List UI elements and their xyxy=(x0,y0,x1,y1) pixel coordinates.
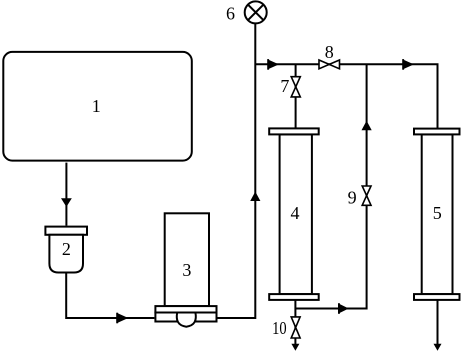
pump 3 dome xyxy=(177,313,196,327)
valve 7 xyxy=(291,77,300,87)
wire branch to valve8 and to column5 top xyxy=(255,64,437,128)
svg-text:4: 4 xyxy=(291,203,300,223)
svg-text:8: 8 xyxy=(325,42,334,62)
arrow right on wire 2-3 xyxy=(116,313,118,324)
pump 3 body xyxy=(165,213,209,306)
wire pump3 base to riser and up to indicator 6 xyxy=(218,24,256,318)
wire tank1 to vessel2 xyxy=(65,163,67,226)
arrow right after branch junction xyxy=(267,59,269,70)
column 4 bottom cap xyxy=(269,294,319,300)
valve 8 xyxy=(319,60,329,69)
column 5 bottom cap xyxy=(414,294,460,300)
wire vessel2 to pump3 base xyxy=(66,273,154,319)
pump 3 base lower row xyxy=(155,313,216,322)
arrow down outlet valve10 xyxy=(291,344,299,351)
vessel 2 lid xyxy=(45,227,87,235)
wire column5 bottom outlet xyxy=(437,300,439,347)
arrow down on wire 1-2 xyxy=(61,198,72,207)
tank 1 xyxy=(3,52,192,161)
valve 9 xyxy=(362,186,371,196)
arrow right before column5 elbow xyxy=(402,59,404,70)
arrow down outlet column5 xyxy=(434,344,442,351)
svg-text:5: 5 xyxy=(433,203,442,223)
svg-text:7: 7 xyxy=(280,76,289,96)
column 5 top cap xyxy=(414,129,460,135)
column 4 body xyxy=(280,134,312,294)
svg-text:1: 1 xyxy=(92,96,101,116)
arrow up on riser xyxy=(250,192,260,201)
arrow up on middle riser xyxy=(362,121,372,130)
indicator 6 circle-X xyxy=(245,1,267,23)
valve 10 xyxy=(291,317,300,328)
arrow right on column4 bottom line xyxy=(338,303,340,314)
svg-text:9: 9 xyxy=(348,187,357,207)
wire valve7 drop to column4 top xyxy=(295,64,297,128)
column 5 body xyxy=(422,134,453,294)
svg-text:6: 6 xyxy=(226,4,235,24)
wire column4 bottom to middle riser junction xyxy=(295,64,366,308)
svg-text:3: 3 xyxy=(182,260,191,280)
wire column4 bottom through valve10 xyxy=(294,300,296,347)
pump 3 base plate xyxy=(155,306,216,312)
svg-text:10: 10 xyxy=(272,318,287,338)
vessel 2 body xyxy=(49,235,83,273)
svg-text:2: 2 xyxy=(62,239,71,259)
column 4 top cap xyxy=(269,128,319,134)
